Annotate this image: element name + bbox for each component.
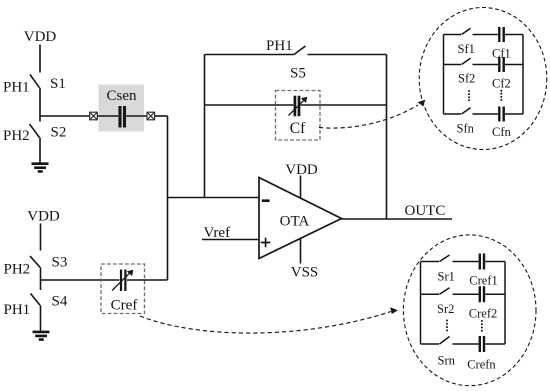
label Sf2 <box>458 72 475 86</box>
wire Csen plate to right terminal <box>126 115 147 117</box>
svg-text:S4: S4 <box>52 294 68 310</box>
wire top feedback (right of S5) <box>308 54 387 56</box>
svg-text:Sfn: Sfn <box>457 122 475 136</box>
wire VDD to S3 <box>40 224 42 251</box>
svg-text:VSS: VSS <box>291 265 319 281</box>
label Cref <box>111 298 138 314</box>
label Cref1 <box>469 274 497 288</box>
switch S4 <box>31 294 41 306</box>
wire Cref to sense riser <box>127 279 168 281</box>
wire feedback left riser <box>204 55 206 198</box>
capacitor Crefn <box>480 336 484 352</box>
arrow of variable capacitor Cf <box>289 100 304 115</box>
wire Cref-bank row2 <box>421 293 506 295</box>
wire feedback right riser <box>386 55 388 220</box>
label S4 <box>52 294 68 310</box>
pin plus (non-inverting input) <box>261 238 271 248</box>
label Csen <box>107 88 138 104</box>
switch Sfn <box>462 108 471 114</box>
svg-text:Cf: Cf <box>290 120 306 137</box>
capacitor Cref1 <box>480 254 484 270</box>
label Sfn <box>457 122 475 136</box>
capacitor Cfn <box>499 107 503 122</box>
svg-text:PH1: PH1 <box>3 80 30 96</box>
dots Cf-bank cap column <box>500 90 502 101</box>
terminal box right of Csen <box>147 112 155 120</box>
svg-text:Cf1: Cf1 <box>492 47 511 61</box>
wire right terminal to corner <box>155 115 168 117</box>
dots Cf-bank switch column <box>468 90 470 101</box>
label PH1 (S5 clock) <box>266 38 293 54</box>
label S1 <box>50 76 66 92</box>
dots Cref-bank switch column <box>446 320 448 332</box>
svg-text:OUTC: OUTC <box>405 203 446 219</box>
wire Cf-bank right bus <box>522 35 524 115</box>
capacitor Cf (variable) <box>295 96 299 116</box>
wire VSS stub <box>300 239 302 264</box>
label VDD (OTA supply) <box>285 162 318 178</box>
svg-text:Sr1: Sr1 <box>438 270 455 284</box>
label Sf1 <box>458 42 475 56</box>
svg-text:Csen: Csen <box>107 88 138 104</box>
pin minus (inverting input) <box>262 199 270 202</box>
label Cf <box>290 120 306 137</box>
svg-text:Cref2: Cref2 <box>469 306 497 320</box>
wire S2 to ground <box>39 138 41 163</box>
wire Cf feedback line right <box>301 104 387 106</box>
node VDD (top-left supply) <box>24 29 57 45</box>
svg-text:Srn: Srn <box>438 354 456 368</box>
svg-text:PH1: PH1 <box>4 302 31 318</box>
wire Cf-bank row3 <box>444 113 524 115</box>
terminal box left of Csen <box>90 112 98 120</box>
wire Cf-bank row2 <box>444 64 524 66</box>
dashed callout arrow Cref to bank <box>140 312 391 334</box>
dashed ellipse (Cref bank detail) <box>403 235 536 386</box>
Csen shaded region <box>99 85 145 132</box>
switch S1 <box>30 75 40 88</box>
svg-text:Crefn: Crefn <box>467 358 496 372</box>
svg-text:S2: S2 <box>51 125 67 141</box>
op-amp OTA <box>259 178 342 259</box>
svg-text:VDD: VDD <box>285 162 318 178</box>
arrow of variable capacitor Cref <box>112 273 130 291</box>
label S3 <box>52 255 68 271</box>
wire VDD stub into OTA <box>300 176 302 199</box>
svg-text:PH2: PH2 <box>4 262 31 278</box>
svg-text:S5: S5 <box>290 66 306 82</box>
wire S1 to node A <box>39 88 41 122</box>
wire Cref-bank row1 <box>421 261 506 263</box>
wire to OTA inverting input <box>168 197 260 199</box>
wire terminal to Csen plate <box>97 115 118 117</box>
label PH1 (S1 clock) <box>3 80 30 96</box>
switch Srn <box>440 337 450 345</box>
node OUTC <box>405 203 446 219</box>
label Sr2 <box>437 302 454 316</box>
switch Sf1 <box>462 28 471 34</box>
label Cfn <box>492 125 512 139</box>
wire vertical sense node <box>167 116 169 280</box>
node Vref input line <box>202 239 259 241</box>
label Sr1 <box>438 270 455 284</box>
svg-text:Cfn: Cfn <box>492 125 512 139</box>
svg-text:S1: S1 <box>50 76 66 92</box>
svg-text:VDD: VDD <box>27 209 60 225</box>
label Cref2 <box>469 306 497 320</box>
dashed ellipse (Cf bank detail) <box>419 8 547 150</box>
label Vref <box>204 225 231 241</box>
svg-text:PH1: PH1 <box>266 38 293 54</box>
ground (below S2) <box>32 164 49 172</box>
label Srn <box>438 354 456 368</box>
svg-text:Sf2: Sf2 <box>458 72 475 86</box>
dashed callout arrow Cf to bank <box>319 105 418 128</box>
wire Cref-bank left bus <box>420 262 422 345</box>
switch S5 <box>294 46 306 55</box>
svg-text:Cf2: Cf2 <box>492 77 511 91</box>
capacitor Cf2 <box>499 57 503 72</box>
svg-text:Cref1: Cref1 <box>469 274 497 288</box>
capacitor Csen <box>120 106 125 128</box>
wire Cf-bank left bus <box>443 35 445 115</box>
wire Cf-bank row1 <box>444 34 524 36</box>
wire S4 to ground <box>40 305 42 331</box>
wire node A to Csen left terminal <box>40 115 90 117</box>
wire Cf feedback line left <box>205 104 294 106</box>
label Cf1 <box>492 47 511 61</box>
wire VDD to S1 <box>39 45 41 73</box>
label PH1 (S4 clock) <box>4 302 31 318</box>
label S2 <box>51 125 67 141</box>
capacitor Cf1 <box>499 27 503 42</box>
svg-text:Cref: Cref <box>111 298 138 314</box>
svg-text:OTA: OTA <box>280 214 310 230</box>
ground (below S4) <box>33 332 50 340</box>
wire Cref-bank row3 <box>421 343 506 345</box>
label S5 <box>290 66 306 82</box>
switch Sf2 <box>462 58 471 64</box>
switch S3 <box>30 256 40 267</box>
wire OTA output <box>342 218 453 220</box>
svg-text:S3: S3 <box>52 255 68 271</box>
wire S3 to node B <box>40 267 42 290</box>
switch S2 <box>30 124 40 138</box>
svg-text:Sf1: Sf1 <box>458 42 475 56</box>
switch Sr1 <box>440 255 450 262</box>
capacitor Cref2 <box>480 286 484 302</box>
svg-text:VDD: VDD <box>24 29 57 45</box>
wire node B to Cref <box>41 279 120 281</box>
label PH2 (S3 clock) <box>4 262 31 278</box>
dashed box around Cref <box>101 264 145 314</box>
label OTA <box>280 214 310 230</box>
wire Cref-bank right bus <box>504 262 506 345</box>
svg-text:Vref: Vref <box>204 225 231 241</box>
svg-text:Sr2: Sr2 <box>437 302 454 316</box>
node VDD (bottom-left supply) <box>27 209 60 225</box>
wire top feedback (left of S5) <box>205 54 295 56</box>
label Cf2 <box>492 77 511 91</box>
svg-text:PH2: PH2 <box>3 128 30 144</box>
dots Cref-bank cap column <box>481 320 483 332</box>
label Crefn <box>467 358 496 372</box>
dashed box around Cf <box>276 91 321 141</box>
switch Sr2 <box>440 288 450 295</box>
capacitor Cref (variable) <box>121 270 125 292</box>
label PH2 (S2 clock) <box>3 128 30 144</box>
label VSS <box>291 265 319 281</box>
